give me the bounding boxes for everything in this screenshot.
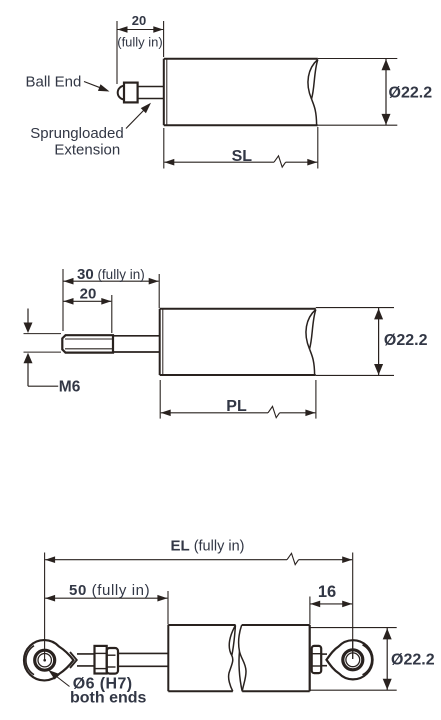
svg-text:M6: M6 bbox=[59, 379, 81, 396]
svg-text:SL: SL bbox=[232, 148, 253, 165]
svg-text:EL (fully in): EL (fully in) bbox=[171, 538, 245, 555]
svg-text:Extension: Extension bbox=[54, 142, 120, 159]
svg-text:20: 20 bbox=[80, 286, 97, 303]
svg-text:PL: PL bbox=[226, 398, 247, 415]
svg-text:Ø22.2: Ø22.2 bbox=[391, 652, 435, 669]
svg-text:20: 20 bbox=[132, 13, 146, 28]
svg-text:16: 16 bbox=[318, 583, 336, 601]
svg-text:Ø22.2: Ø22.2 bbox=[384, 332, 428, 349]
svg-text:Ø22.2: Ø22.2 bbox=[389, 85, 433, 102]
svg-text:Sprungloaded: Sprungloaded bbox=[30, 125, 123, 142]
svg-text:50 (fully in): 50 (fully in) bbox=[69, 582, 150, 599]
svg-text:(fully in): (fully in) bbox=[117, 35, 163, 50]
svg-text:30 (fully in): 30 (fully in) bbox=[77, 266, 145, 283]
svg-text:Ball End: Ball End bbox=[26, 73, 82, 90]
svg-text:both ends: both ends bbox=[70, 690, 147, 707]
